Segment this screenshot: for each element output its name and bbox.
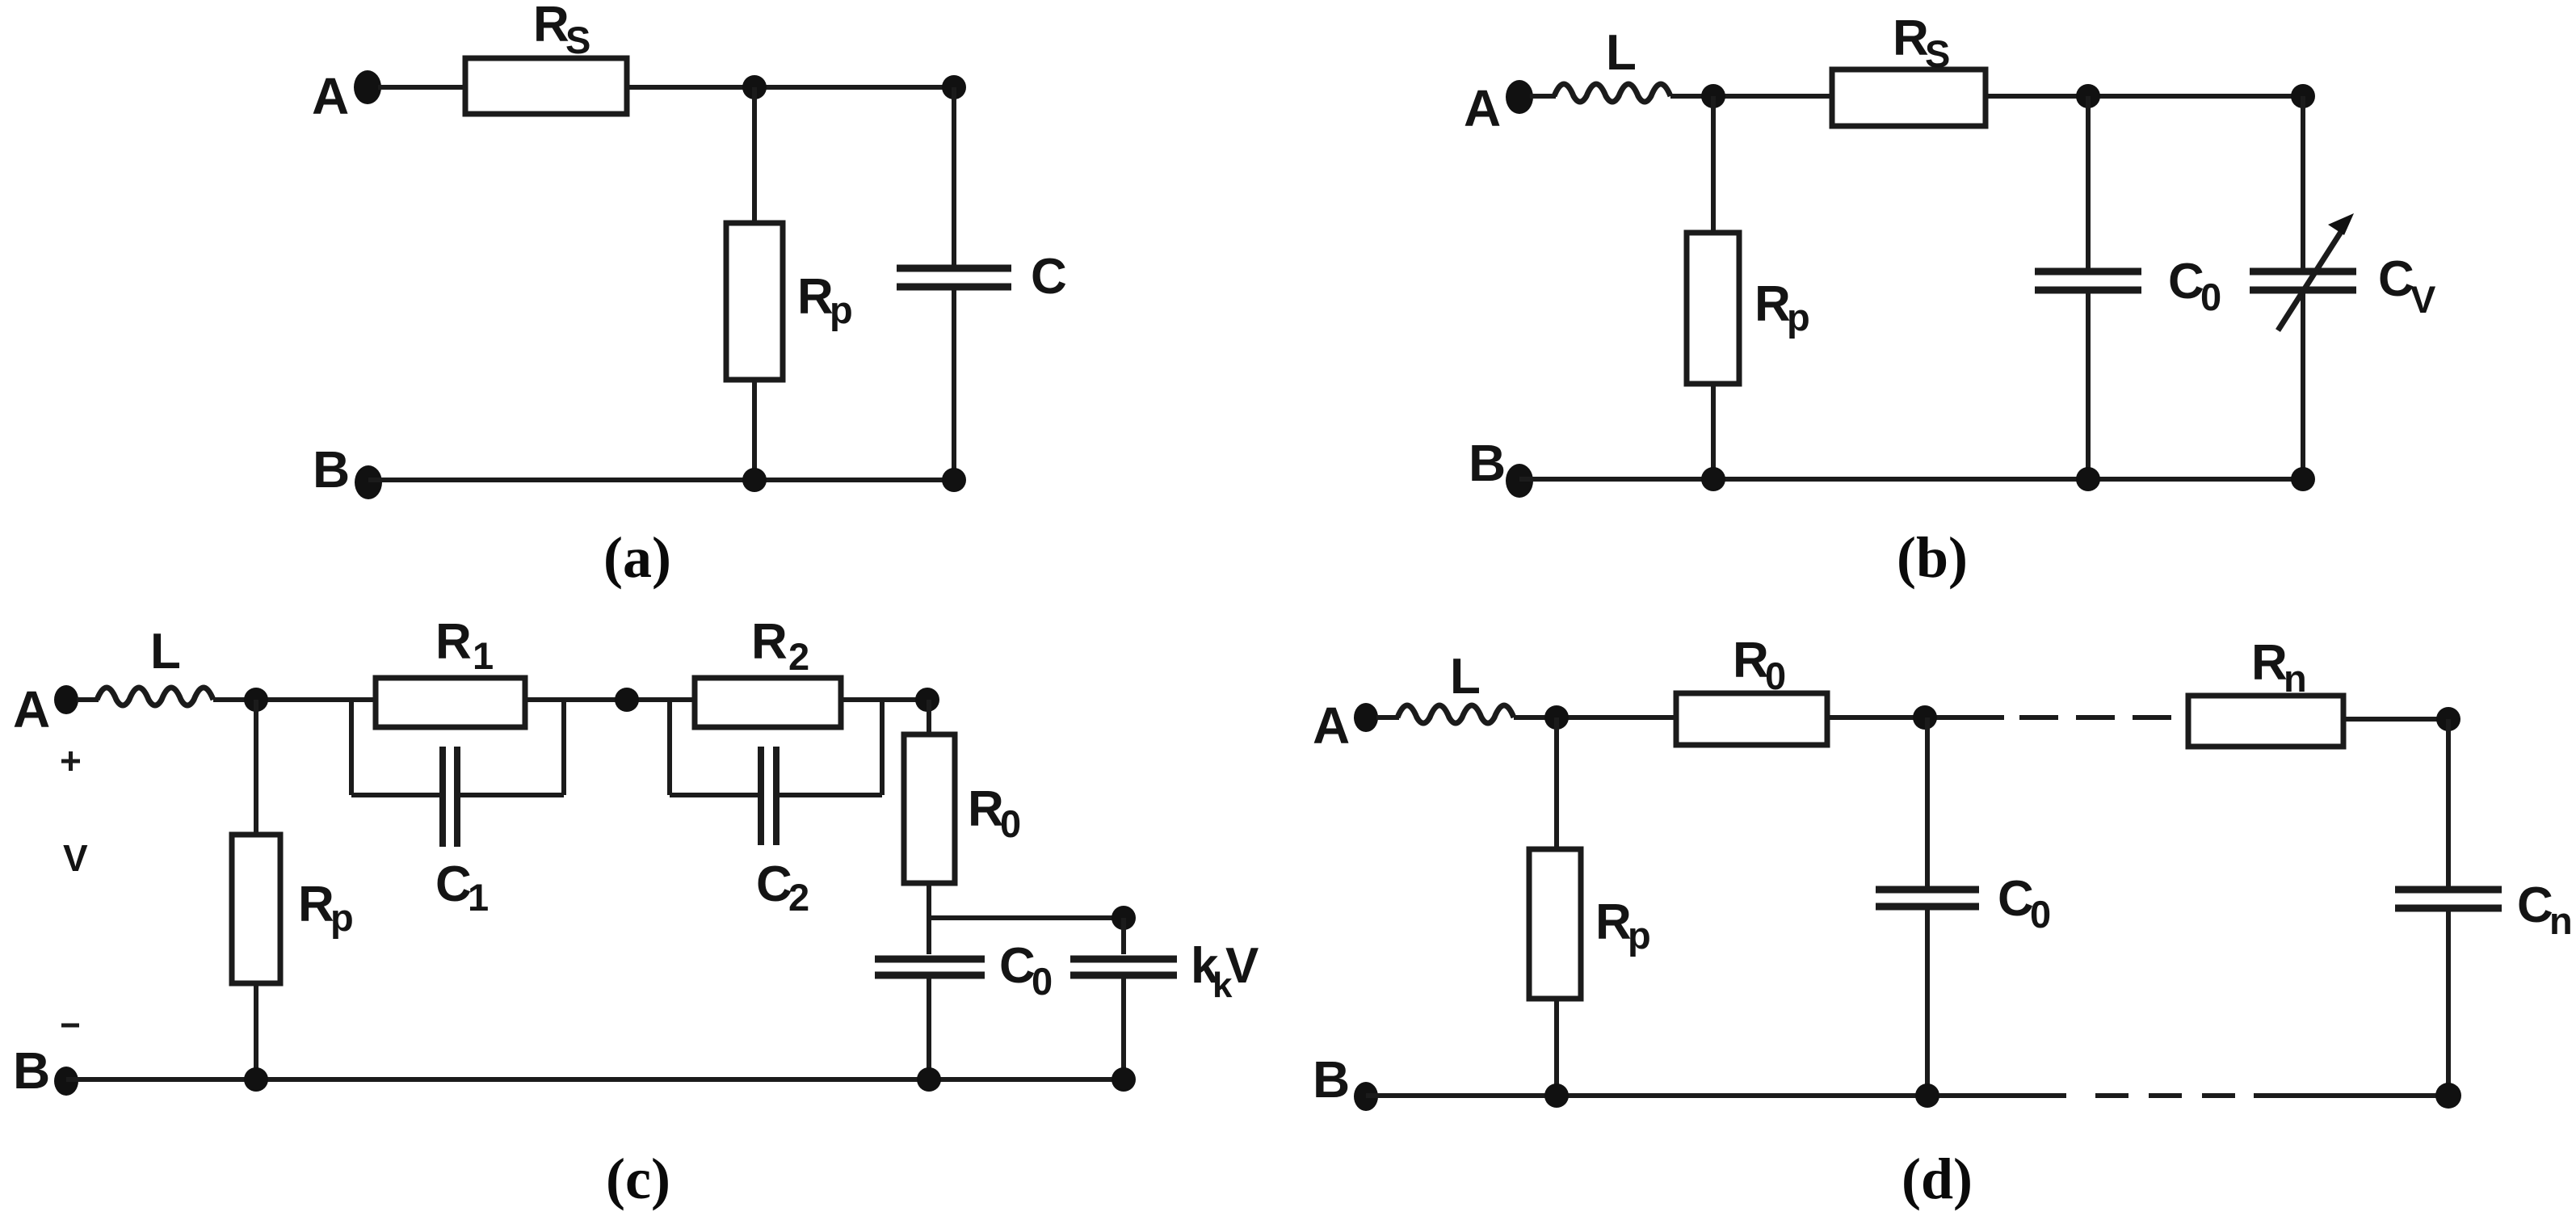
node top of C bbox=[942, 75, 966, 99]
bottom rail wire bbox=[66, 1077, 1124, 1082]
svg-text:V: V bbox=[2410, 278, 2436, 321]
wire down to Rp bbox=[752, 87, 757, 223]
svg-text:C: C bbox=[2378, 251, 2414, 307]
svg-text:B: B bbox=[13, 1041, 50, 1100]
node junction top of Rp bbox=[742, 75, 767, 99]
inductor L bbox=[1554, 84, 1670, 102]
capacitor kkV bbox=[1070, 956, 1177, 963]
wire down to C0 bbox=[2086, 96, 2091, 269]
svg-text:0: 0 bbox=[2030, 893, 2051, 936]
svg-text:(c): (c) bbox=[606, 1147, 670, 1211]
wire Rs to node bbox=[627, 85, 954, 90]
junction top of C0 bbox=[1913, 705, 1937, 730]
wire C0 to bottom rail bbox=[1925, 910, 1930, 1096]
wire down to Rp bbox=[1554, 717, 1559, 849]
bottom rail wire bbox=[368, 478, 954, 482]
svg-text:R: R bbox=[533, 0, 569, 53]
svg-text:R: R bbox=[1733, 633, 1769, 688]
svg-text:A: A bbox=[1464, 79, 1501, 137]
node middle junction bbox=[615, 688, 639, 712]
svg-text:R: R bbox=[298, 877, 334, 932]
resistor Rp bbox=[232, 835, 280, 983]
resistor Rn bbox=[2188, 696, 2343, 747]
svg-text:R: R bbox=[751, 614, 788, 670]
svg-text:(d): (d) bbox=[1902, 1147, 1973, 1211]
node B terminal bbox=[355, 465, 382, 499]
svg-text:C: C bbox=[435, 856, 472, 912]
junction bottom of Cn bbox=[2435, 1083, 2461, 1109]
svg-text:B: B bbox=[1313, 1050, 1350, 1109]
svg-text:L: L bbox=[1450, 649, 1481, 705]
svg-text:C: C bbox=[999, 938, 1036, 994]
node A terminal bbox=[1506, 80, 1533, 114]
svg-text:L: L bbox=[1606, 25, 1637, 81]
svg-text:0: 0 bbox=[1032, 960, 1053, 1003]
svg-text:p: p bbox=[1787, 296, 1810, 339]
wire L to junction bbox=[1670, 94, 1834, 99]
wire down to capacitor C bbox=[952, 87, 956, 266]
junction bottom of Rp bbox=[742, 468, 767, 492]
junction bottom of Cv bbox=[2291, 467, 2315, 491]
junction top of Rp bbox=[1544, 705, 1569, 730]
svg-text:R: R bbox=[797, 269, 834, 325]
resistor Rp bbox=[1529, 849, 1581, 999]
svg-text:B: B bbox=[313, 440, 350, 499]
bottom dashed wire bbox=[2095, 1093, 2258, 1098]
svg-text:0: 0 bbox=[1000, 802, 1021, 845]
svg-text:p: p bbox=[1628, 914, 1651, 957]
svg-text:C: C bbox=[1998, 871, 2034, 927]
svg-text:R: R bbox=[1595, 894, 1632, 950]
svg-text:S: S bbox=[1925, 32, 1950, 75]
wire A to L bbox=[1530, 94, 1556, 99]
wire down to Rp bbox=[1711, 96, 1716, 233]
svg-text:R: R bbox=[2251, 635, 2288, 691]
svg-text:R: R bbox=[435, 614, 472, 670]
junction bottom of Rp bbox=[1544, 1083, 1569, 1108]
svg-text:(b): (b) bbox=[1897, 525, 1968, 590]
svg-text:C: C bbox=[2517, 877, 2553, 933]
capacitor C2 bbox=[758, 747, 764, 845]
svg-text:S: S bbox=[565, 19, 590, 61]
wire down to Cn bbox=[2446, 719, 2451, 886]
resistor R2 bbox=[695, 678, 841, 727]
wire A to L bbox=[1376, 715, 1399, 720]
junction bottom of C0 bbox=[1915, 1083, 1939, 1108]
svg-text:B: B bbox=[1469, 434, 1506, 492]
node A terminal bbox=[354, 70, 381, 104]
svg-text:p: p bbox=[330, 896, 354, 939]
inductor L bbox=[97, 688, 213, 705]
svg-text:C: C bbox=[2168, 254, 2204, 309]
wire junction to kkV branch bbox=[929, 915, 1124, 920]
node A terminal bbox=[54, 685, 78, 714]
wire down to Cv bbox=[2301, 96, 2305, 269]
bottom rail wire right bbox=[2254, 1093, 2448, 1098]
resistor R0 bbox=[1676, 693, 1827, 745]
junction bottom of C0 bbox=[917, 1067, 941, 1092]
variable capacitor Cv bbox=[2250, 268, 2356, 276]
svg-text:R: R bbox=[1754, 276, 1791, 332]
inductor L bbox=[1397, 705, 1514, 723]
capacitor C1 bbox=[439, 747, 446, 847]
wire Rp to bottom rail bbox=[254, 983, 258, 1079]
capacitor C0 bbox=[1876, 886, 1979, 894]
minus sign bbox=[61, 1024, 79, 1028]
svg-text:0: 0 bbox=[2200, 276, 2221, 318]
bottom rail wire bbox=[1366, 1093, 2066, 1098]
svg-text:A: A bbox=[13, 680, 50, 738]
wire Rp to bottom rail bbox=[752, 380, 757, 480]
svg-text:1: 1 bbox=[473, 634, 494, 677]
svg-text:n: n bbox=[2549, 899, 2573, 942]
wire down to R0 bbox=[927, 700, 931, 734]
svg-text:A: A bbox=[1313, 696, 1350, 755]
wire Cv to bottom rail bbox=[2301, 293, 2305, 479]
wire down to Rp bbox=[254, 700, 258, 835]
wire A to Rs bbox=[378, 85, 467, 90]
junction bottom of kkV bbox=[1112, 1067, 1136, 1092]
resistor Rp bbox=[726, 223, 783, 380]
svg-text:R: R bbox=[1893, 11, 1929, 66]
svg-text:n: n bbox=[2284, 657, 2307, 700]
svg-text:p: p bbox=[830, 288, 853, 331]
wire L to junction bbox=[1514, 715, 1678, 720]
wire Cn to bottom rail bbox=[2446, 911, 2451, 1096]
resistor R0 bbox=[904, 734, 955, 883]
wire L to top rail bbox=[213, 697, 924, 702]
svg-text:A: A bbox=[312, 67, 349, 125]
R1 C1 parallel bracket right bbox=[460, 793, 564, 797]
node top of Cv bbox=[2291, 84, 2315, 108]
wire down to C0 bbox=[1925, 717, 1930, 886]
capacitor C bbox=[897, 265, 1011, 272]
resistor Rs bbox=[1832, 69, 1986, 126]
svg-text:L: L bbox=[150, 624, 181, 680]
wire Rn to right node bbox=[2343, 717, 2448, 722]
junction top of C0 bbox=[2076, 84, 2100, 108]
R2 C2 parallel bracket right bbox=[779, 793, 882, 797]
svg-text:C: C bbox=[1031, 249, 1067, 305]
node top of Cn bbox=[2436, 707, 2460, 731]
junction bottom of Rp bbox=[1701, 467, 1725, 491]
svg-text:C: C bbox=[756, 856, 792, 912]
svg-text:2: 2 bbox=[788, 635, 809, 678]
wire C to bottom rail bbox=[952, 290, 956, 480]
junction bottom of C bbox=[942, 468, 966, 492]
node B terminal bbox=[54, 1067, 78, 1096]
node B terminal bbox=[1354, 1082, 1378, 1111]
svg-text:V: V bbox=[1225, 938, 1259, 994]
dashed wire to Rn bbox=[2019, 715, 2190, 720]
plus sign bbox=[61, 759, 80, 764]
svg-text:R: R bbox=[968, 781, 1004, 837]
junction bottom of C0 bbox=[2076, 467, 2100, 491]
svg-text:V: V bbox=[63, 837, 88, 879]
wire C0 to bottom rail bbox=[2086, 293, 2091, 479]
wire R0 to junction bbox=[1827, 715, 2004, 720]
node top of kkV bbox=[1112, 906, 1136, 930]
wire kkV to bottom rail bbox=[1121, 978, 1126, 1079]
svg-text:0: 0 bbox=[1765, 654, 1786, 697]
svg-text:1: 1 bbox=[468, 876, 489, 919]
junction top of Rp bbox=[1701, 84, 1725, 108]
wire A to L bbox=[77, 697, 99, 702]
resistor R1 bbox=[376, 678, 525, 727]
wire Rp to bottom rail bbox=[1711, 384, 1716, 479]
node A terminal bbox=[1354, 703, 1378, 732]
bottom rail wire bbox=[1519, 477, 2303, 482]
svg-text:(a): (a) bbox=[603, 525, 671, 590]
resistor Rp bbox=[1687, 233, 1739, 384]
wire Rp to bottom rail bbox=[1554, 999, 1559, 1096]
junction bottom of Rp bbox=[244, 1067, 268, 1092]
svg-text:2: 2 bbox=[788, 876, 809, 919]
capacitor Cn bbox=[2395, 886, 2502, 894]
R1 C1 parallel bracket left bbox=[349, 700, 354, 795]
node B terminal bbox=[1506, 464, 1533, 498]
resistor Rs bbox=[465, 58, 627, 114]
wire down to kkV capacitor bbox=[1121, 918, 1126, 954]
wire R0 down to C0 bbox=[927, 883, 931, 954]
junction top of Rp bbox=[244, 688, 268, 712]
R2 C2 parallel bracket left bbox=[667, 700, 672, 795]
node right junction bbox=[915, 688, 939, 712]
capacitor C0 bbox=[875, 956, 985, 963]
wire Rs to right corner bbox=[1986, 94, 2303, 99]
wire C0 to bottom rail bbox=[927, 978, 931, 1079]
capacitor C0 bbox=[2035, 268, 2141, 276]
